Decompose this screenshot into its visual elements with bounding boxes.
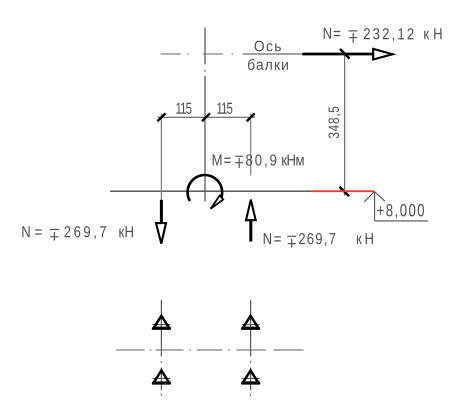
- svg-text:232,12: 232,12: [363, 26, 414, 44]
- svg-text:N=: N=: [21, 224, 42, 242]
- plan view: right vertical axis (dash-dot): [250, 300, 252, 396]
- anchor bolt top-right: [241, 316, 260, 329]
- label M=-+80,9 кНм: [212, 152, 305, 170]
- svg-text:+8,000: +8,000: [377, 201, 425, 220]
- down arrowhead (open): [156, 223, 166, 244]
- right extension line: [250, 114, 252, 176]
- left extension line: [160, 114, 162, 200]
- label N=-+232,12 кН: [323, 26, 443, 44]
- red highlighted level line: [312, 190, 375, 192]
- svg-text:269,7: 269,7: [64, 224, 107, 242]
- svg-text:кНм: кНм: [281, 152, 304, 170]
- svg-text:348,5: 348,5: [326, 106, 343, 138]
- svg-text:N=: N=: [323, 26, 341, 44]
- svg-text:балки: балки: [247, 57, 289, 74]
- force N top: thick horizontal arrow line: [302, 53, 372, 56]
- bottom tick of 348,5 dimension: [340, 187, 350, 197]
- svg-text:M=: M=: [212, 152, 232, 170]
- minus-plus symbol of top label: [349, 31, 358, 43]
- top horizontal center line (beam axis, dash-dot): [161, 53, 302, 55]
- svg-text:269,7: 269,7: [298, 231, 336, 249]
- open arrowhead of top force: [373, 49, 392, 60]
- svg-text:115: 115: [216, 99, 233, 117]
- down force arrow at left column: [160, 200, 163, 222]
- moment arrowhead: [211, 195, 224, 208]
- svg-text:N=: N=: [263, 231, 282, 249]
- plan view: horizontal dash-dot axis: [116, 349, 303, 351]
- label N=-+269,7 кН (left): [21, 224, 134, 242]
- baseline of foundation (thin): [110, 190, 312, 192]
- label N=-+269,7 кН (right): [263, 231, 374, 249]
- svg-text:кН: кН: [356, 231, 374, 249]
- svg-text:115: 115: [175, 99, 192, 117]
- minus-plus of left label: [50, 230, 59, 241]
- svg-text:80,9: 80,9: [245, 152, 276, 170]
- vertical dimension line 348,5: [344, 54, 346, 196]
- svg-text:кН: кН: [118, 224, 134, 242]
- top tick of 348,5 dimension: [340, 49, 350, 59]
- elevation mark +8,000: [364, 192, 428, 221]
- anchor bolt top-left: [152, 316, 171, 329]
- dimension ticks: [157, 113, 254, 121]
- moment arc M: [188, 175, 223, 201]
- minus-plus of M label: [235, 156, 243, 168]
- svg-text:кН: кН: [423, 26, 442, 44]
- dimension line 115/115: [158, 116, 256, 118]
- vertical center line through column axis (dash-dot): [204, 28, 206, 202]
- anchor bolt bottom-left: [152, 371, 171, 384]
- minus-plus of right label: [287, 236, 296, 247]
- svg-text:Ось: Ось: [254, 39, 282, 56]
- up arrowhead (open): [246, 200, 256, 221]
- plan view: left vertical axis (dash-dot): [160, 300, 162, 396]
- anchor bolt bottom-right: [241, 371, 260, 384]
- up force arrow at right column: [249, 221, 252, 241]
